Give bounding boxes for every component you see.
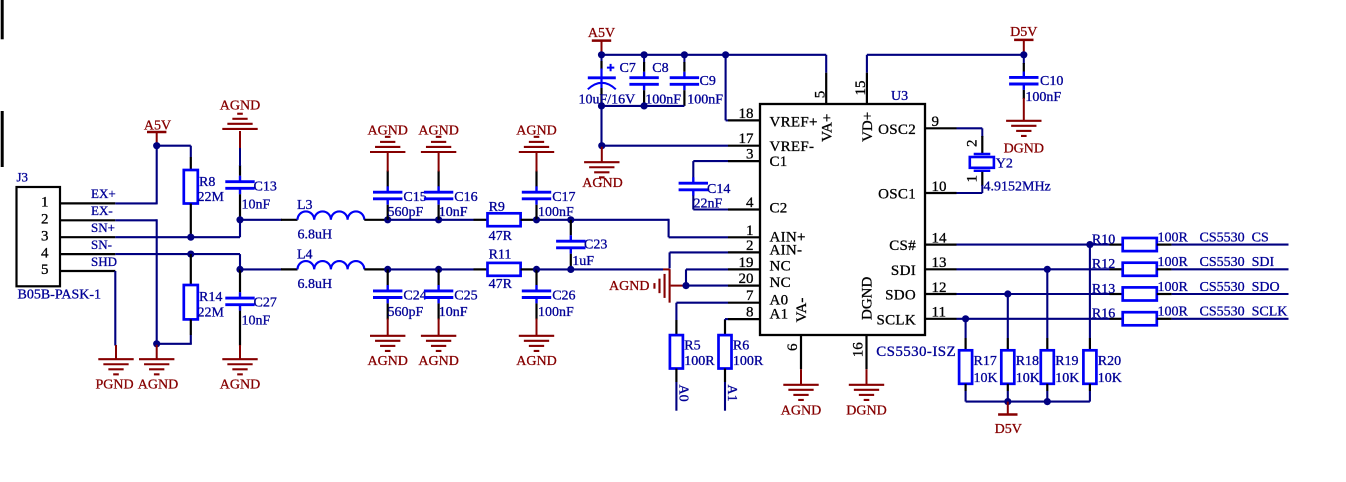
svg-text:560pF: 560pF bbox=[388, 305, 424, 320]
wire SN- bbox=[115, 254, 240, 269]
svg-text:10K: 10K bbox=[974, 371, 998, 386]
wire A0 stub bbox=[675, 382, 677, 411]
svg-text:AGND: AGND bbox=[367, 354, 407, 369]
svg-text:22M: 22M bbox=[198, 306, 225, 321]
wire SHD down bbox=[114, 271, 116, 346]
wire R18 to line bbox=[1007, 294, 1009, 338]
junction C7 bottom bbox=[598, 102, 605, 109]
wire C1 pin3 bbox=[693, 161, 728, 177]
ground AGND below C24 bbox=[367, 336, 407, 369]
svg-text:C24: C24 bbox=[403, 289, 426, 304]
svg-text:CS5530 SCLK: CS5530 SCLK bbox=[1200, 305, 1288, 320]
svg-text:SN+: SN+ bbox=[91, 220, 115, 235]
svg-text:2: 2 bbox=[746, 238, 754, 254]
capacitor C17 100nF bbox=[522, 171, 576, 221]
svg-text:CS5530 SDI: CS5530 SDI bbox=[1200, 255, 1275, 270]
svg-text:R5: R5 bbox=[684, 339, 700, 354]
svg-text:SDI: SDI bbox=[891, 263, 916, 279]
wire R20 to line bbox=[1089, 245, 1091, 338]
net label EX+ bbox=[91, 186, 116, 201]
junction VREF+ tap bbox=[722, 51, 729, 58]
U3 bottom pins 6,16 bbox=[785, 277, 876, 370]
svg-text:4.9152MHz: 4.9152MHz bbox=[984, 179, 1051, 194]
net label CS5530 CS bbox=[1158, 230, 1289, 245]
capacitor C7 10uF/16V bbox=[579, 55, 636, 108]
junction SN- node bbox=[236, 266, 243, 273]
svg-text:4: 4 bbox=[746, 195, 754, 211]
resistor R19 10K bbox=[1041, 338, 1080, 391]
svg-text:R14: R14 bbox=[199, 290, 222, 305]
svg-text:A5V: A5V bbox=[144, 119, 171, 134]
ground AGND (pin6) bbox=[781, 369, 821, 418]
svg-text:100R: 100R bbox=[733, 354, 764, 369]
svg-text:Y2: Y2 bbox=[996, 157, 1013, 172]
svg-text:AGND: AGND bbox=[609, 279, 649, 294]
wire C2 pin4 bbox=[693, 196, 728, 210]
svg-text:SHD: SHD bbox=[91, 254, 117, 269]
junction pull-up R10 row bbox=[1086, 241, 1093, 248]
wire R14 to AGND bbox=[157, 335, 192, 344]
svg-text:D5V: D5V bbox=[1010, 25, 1037, 40]
svg-text:AGND: AGND bbox=[220, 98, 260, 113]
svg-text:DGND: DGND bbox=[846, 403, 886, 418]
wire NC pin19 bbox=[686, 269, 728, 286]
svg-text:AGND: AGND bbox=[138, 377, 178, 392]
wire L4 node to C25 node bbox=[388, 268, 439, 270]
svg-text:18: 18 bbox=[739, 106, 754, 122]
svg-text:J3: J3 bbox=[17, 170, 29, 185]
svg-text:AGND: AGND bbox=[516, 124, 556, 139]
capacitor C27 10nF bbox=[225, 269, 277, 345]
svg-text:L3: L3 bbox=[297, 198, 313, 213]
wire SDO net (IC side) bbox=[957, 293, 1110, 295]
junction pull-up R12 row bbox=[1044, 266, 1051, 273]
svg-text:13: 13 bbox=[932, 255, 947, 271]
wire Y2 to OSC1 bbox=[957, 172, 983, 193]
capacitor C14 22nF bbox=[679, 177, 731, 211]
junction C24 node bbox=[384, 266, 391, 273]
wire SCLK net (IC side) bbox=[957, 318, 1110, 320]
wire AIN- pin link bbox=[670, 252, 728, 268]
svg-text:10nF: 10nF bbox=[439, 205, 468, 220]
svg-text:A5V: A5V bbox=[588, 26, 615, 41]
svg-text:100R: 100R bbox=[1158, 305, 1189, 320]
svg-text:R20: R20 bbox=[1098, 354, 1121, 369]
ground DGND (pin16) bbox=[846, 369, 886, 418]
svg-text:C26: C26 bbox=[552, 289, 575, 304]
junction C8 bottom bbox=[641, 102, 648, 109]
svg-text:SDO: SDO bbox=[885, 288, 916, 304]
svg-text:AGND: AGND bbox=[781, 403, 821, 418]
svg-text:19: 19 bbox=[739, 255, 754, 271]
ground AGND below C26 bbox=[516, 336, 556, 369]
resistor R8 22M bbox=[184, 157, 225, 237]
svg-text:47R: 47R bbox=[489, 229, 513, 244]
svg-text:10K: 10K bbox=[1055, 371, 1079, 386]
net label A1 bbox=[724, 385, 739, 402]
junction C8 top bbox=[641, 51, 648, 58]
wire A0 net bbox=[676, 303, 728, 320]
U3 left pins bbox=[728, 106, 818, 323]
wire C17 node to C23 node bbox=[537, 219, 571, 221]
svg-text:VA+: VA+ bbox=[819, 114, 835, 142]
svg-text:R10: R10 bbox=[1092, 232, 1115, 247]
svg-text:C2: C2 bbox=[770, 201, 788, 217]
connector J3 pins 1-5 bbox=[60, 203, 115, 271]
svg-text:C7: C7 bbox=[620, 61, 636, 76]
svg-text:AGND: AGND bbox=[418, 124, 458, 139]
svg-text:AGND: AGND bbox=[582, 176, 622, 191]
capacitor C23 1uF bbox=[556, 220, 607, 270]
junction bus R18 bbox=[1004, 398, 1011, 405]
svg-text:16: 16 bbox=[850, 342, 866, 358]
svg-text:OSC1: OSC1 bbox=[878, 187, 916, 203]
wire R17 to bus bbox=[965, 391, 967, 402]
wire C25 to AGND bbox=[438, 319, 440, 336]
net label EX- bbox=[91, 203, 113, 218]
wire AGND to C13 bbox=[239, 131, 241, 166]
wire R17 to line bbox=[965, 319, 967, 338]
svg-text:5: 5 bbox=[812, 91, 828, 99]
capacitor C8 100nF bbox=[629, 55, 681, 108]
svg-text:100R: 100R bbox=[684, 354, 715, 369]
resistor R11 47R bbox=[474, 248, 537, 293]
svg-text:D5V: D5V bbox=[995, 422, 1022, 437]
junction bus R19 bbox=[1044, 398, 1051, 405]
capacitor C25 10nF bbox=[424, 269, 478, 320]
svg-text:15: 15 bbox=[853, 81, 869, 96]
wire CS net (IC side) bbox=[957, 244, 1110, 246]
capacitor C16 10nF bbox=[424, 171, 478, 221]
resistor R6 100R bbox=[719, 320, 764, 382]
junction C23 bottom node bbox=[567, 266, 574, 273]
wire C24 to AGND bbox=[387, 319, 389, 336]
svg-text:EX-: EX- bbox=[91, 203, 113, 218]
wire VREF- pin17 bbox=[602, 145, 728, 147]
resistor R13 100R bbox=[1092, 282, 1172, 301]
svg-text:4: 4 bbox=[41, 245, 49, 261]
svg-text:5: 5 bbox=[41, 262, 49, 278]
connector J3 (B05B-PASK-1) bbox=[17, 170, 102, 303]
svg-text:L4: L4 bbox=[297, 248, 313, 263]
svg-text:VD+: VD+ bbox=[860, 112, 876, 142]
junction NC node bbox=[682, 282, 689, 289]
wire A1 stub bbox=[724, 382, 726, 411]
svg-text:100R: 100R bbox=[1158, 230, 1189, 245]
svg-text:100R: 100R bbox=[1158, 280, 1189, 295]
svg-text:10K: 10K bbox=[1016, 371, 1040, 386]
wire R18 to bus bbox=[1007, 391, 1009, 402]
svg-text:560pF: 560pF bbox=[388, 205, 424, 220]
wire A5V rail bbox=[602, 55, 827, 73]
junction R14/SN- bbox=[187, 251, 194, 258]
ground AGND (C27) bbox=[220, 345, 260, 392]
svg-text:DGND: DGND bbox=[860, 277, 876, 320]
wire D5V rail bbox=[867, 55, 1024, 73]
capacitor C10 100nF bbox=[1009, 55, 1063, 105]
net label CS5530 SDI bbox=[1158, 255, 1289, 270]
wire C7C8C9 bottoms bbox=[602, 105, 685, 107]
capacitor C15 560pF bbox=[373, 171, 427, 221]
svg-text:A1: A1 bbox=[724, 385, 739, 402]
resistor R20 10K bbox=[1083, 338, 1122, 391]
junction EX-/R14/AGND bbox=[153, 340, 160, 347]
ground AGND above C13 bbox=[220, 98, 260, 129]
svg-text:AGND: AGND bbox=[367, 124, 407, 139]
junction C15 node bbox=[384, 216, 391, 223]
svg-text:SN-: SN- bbox=[91, 237, 112, 252]
svg-text:AGND: AGND bbox=[418, 354, 458, 369]
wire to VREF- node bbox=[600, 106, 602, 146]
svg-text:C25: C25 bbox=[454, 289, 477, 304]
svg-text:8: 8 bbox=[746, 305, 754, 321]
svg-text:R6: R6 bbox=[733, 339, 749, 354]
svg-text:CS5530 SDO: CS5530 SDO bbox=[1200, 280, 1280, 295]
svg-text:EX+: EX+ bbox=[91, 186, 116, 201]
wire C25 node to R11 bbox=[439, 268, 474, 270]
svg-text:22M: 22M bbox=[198, 190, 225, 205]
wire R19 to bus bbox=[1046, 391, 1048, 402]
ground AGND above C16 bbox=[418, 124, 458, 152]
svg-text:20: 20 bbox=[739, 271, 754, 287]
wire R19 to line bbox=[1046, 269, 1048, 338]
svg-text:10nF: 10nF bbox=[242, 314, 271, 329]
wire AGND to C15 bbox=[387, 153, 389, 172]
svg-text:R19: R19 bbox=[1055, 354, 1078, 369]
svg-text:10nF: 10nF bbox=[439, 305, 468, 320]
wire R20 to bus bbox=[1089, 391, 1091, 402]
resistor R9 47R bbox=[474, 200, 537, 244]
svg-text:2: 2 bbox=[41, 212, 49, 228]
svg-text:U3: U3 bbox=[891, 89, 908, 104]
power D5V (bottom) bbox=[995, 402, 1022, 437]
wire SN+ bbox=[115, 220, 240, 237]
net label A0 bbox=[676, 385, 691, 402]
svg-text:VA-: VA- bbox=[794, 298, 810, 323]
svg-text:CS5530-ISZ: CS5530-ISZ bbox=[876, 344, 956, 360]
svg-text:A0: A0 bbox=[676, 385, 691, 402]
svg-text:OSC2: OSC2 bbox=[878, 122, 916, 138]
capacitor C9 100nF bbox=[670, 55, 724, 108]
svg-text:R9: R9 bbox=[489, 200, 505, 215]
junction C9 top bbox=[681, 51, 688, 58]
svg-text:C23: C23 bbox=[584, 238, 607, 253]
junction A5V/C7 bbox=[598, 51, 605, 58]
junction A5V node bbox=[153, 142, 160, 149]
junction C23 top node bbox=[567, 216, 574, 223]
svg-text:R13: R13 bbox=[1092, 282, 1115, 297]
svg-text:PGND: PGND bbox=[96, 377, 134, 392]
svg-text:2: 2 bbox=[964, 140, 980, 148]
wire OSC2 to Y2 bbox=[957, 128, 983, 153]
svg-text:C17: C17 bbox=[552, 190, 575, 205]
junction VREF- node bbox=[598, 142, 605, 149]
svg-text:100nF: 100nF bbox=[687, 93, 723, 108]
svg-text:C15: C15 bbox=[403, 190, 426, 205]
wire AGND to C17 bbox=[536, 153, 538, 172]
op-amp U3 CS5530-ISZ body bbox=[760, 89, 956, 360]
svg-text:1: 1 bbox=[964, 175, 980, 183]
U3 right pins bbox=[876, 114, 956, 328]
wire NC pin20 bbox=[686, 285, 728, 287]
svg-text:3: 3 bbox=[746, 147, 754, 163]
net label CS5530 SCLK bbox=[1158, 305, 1289, 320]
resistor R17 10K bbox=[959, 338, 998, 391]
junction C25 node bbox=[435, 266, 442, 273]
svg-text:R11: R11 bbox=[489, 248, 512, 263]
inductor L3 6.8uH bbox=[281, 198, 388, 243]
junction pull-up R13 row bbox=[1004, 290, 1011, 297]
wire A5V to R8 bbox=[157, 146, 191, 157]
ground AGND (EX-) bbox=[138, 345, 178, 393]
junction C26 node bbox=[533, 266, 540, 273]
resistor R14 22M bbox=[184, 254, 225, 335]
ground AGND above C15 bbox=[367, 124, 407, 152]
wire C16 node to R9 bbox=[439, 219, 474, 221]
junction C17 node bbox=[533, 216, 540, 223]
junction R8/SN+ bbox=[187, 234, 194, 241]
svg-text:CS#: CS# bbox=[889, 238, 916, 254]
wire top row to L3 bbox=[240, 219, 282, 221]
wire VREF+ pin18 bbox=[726, 55, 728, 121]
svg-text:12: 12 bbox=[932, 280, 947, 296]
svg-text:R8: R8 bbox=[199, 175, 215, 190]
ground AGND (AIN-/NC) bbox=[609, 269, 686, 303]
svg-text:AGND: AGND bbox=[516, 354, 556, 369]
capacitor C26 100nF bbox=[522, 269, 576, 320]
resistor R18 10K bbox=[1001, 338, 1040, 391]
junction C16 node bbox=[435, 216, 442, 223]
resistor R12 100R bbox=[1092, 257, 1172, 276]
svg-text:6.8uH: 6.8uH bbox=[298, 277, 333, 292]
svg-text:100R: 100R bbox=[1158, 255, 1189, 270]
svg-text:10: 10 bbox=[932, 179, 947, 195]
svg-text:VREF-: VREF- bbox=[770, 139, 815, 155]
wire pull-up bus bbox=[966, 401, 1090, 403]
svg-text:CS5530 CS: CS5530 CS bbox=[1200, 230, 1269, 245]
svg-text:1: 1 bbox=[746, 223, 754, 239]
wire C26 node to C23 bottom bbox=[537, 268, 571, 270]
svg-text:NC: NC bbox=[770, 259, 791, 275]
svg-text:1uF: 1uF bbox=[572, 254, 594, 269]
svg-text:B05B-PASK-1: B05B-PASK-1 bbox=[18, 288, 102, 303]
power A5V (left) bbox=[144, 119, 171, 146]
wire bottom row to L4 bbox=[240, 268, 282, 270]
net label SN+ bbox=[91, 220, 115, 235]
svg-text:SCLK: SCLK bbox=[876, 312, 916, 328]
net label SHD bbox=[91, 254, 117, 269]
svg-text:100nF: 100nF bbox=[538, 305, 574, 320]
svg-text:AIN-: AIN- bbox=[770, 243, 803, 259]
svg-text:C9: C9 bbox=[700, 74, 716, 89]
ground AGND below C25 bbox=[418, 336, 458, 369]
power A5V (top) bbox=[588, 26, 615, 55]
svg-text:C13: C13 bbox=[254, 180, 277, 195]
wire A1 net bbox=[725, 318, 728, 321]
svg-text:11: 11 bbox=[932, 305, 946, 321]
svg-text:10nF: 10nF bbox=[242, 198, 271, 213]
resistor R5 100R bbox=[670, 320, 715, 382]
ground DGND (C10) bbox=[1004, 98, 1044, 157]
power D5V (top) bbox=[1010, 25, 1037, 55]
ground AGND (VREF-) bbox=[582, 147, 622, 192]
svg-text:1: 1 bbox=[41, 195, 49, 211]
svg-text:C16: C16 bbox=[454, 190, 477, 205]
wire EX+ bbox=[115, 145, 156, 205]
svg-text:10K: 10K bbox=[1098, 371, 1122, 386]
svg-text:R16: R16 bbox=[1092, 307, 1115, 322]
wire L3 node to C16 node bbox=[388, 219, 439, 221]
svg-text:AGND: AGND bbox=[220, 377, 260, 392]
svg-text:17: 17 bbox=[739, 131, 755, 147]
wire C26 to AGND bbox=[536, 319, 538, 336]
inductor L4 6.8uH bbox=[281, 248, 388, 293]
wire AIN+ net bbox=[571, 219, 728, 238]
wire SDI net (IC side) bbox=[957, 268, 1110, 270]
svg-text:7: 7 bbox=[746, 288, 754, 304]
svg-text:C8: C8 bbox=[652, 61, 668, 76]
svg-text:A1: A1 bbox=[770, 307, 789, 323]
svg-text:NC: NC bbox=[770, 275, 791, 291]
svg-text:R18: R18 bbox=[1016, 354, 1039, 369]
resistor R10 100R bbox=[1092, 232, 1172, 251]
svg-text:C1: C1 bbox=[770, 154, 788, 170]
svg-text:C10: C10 bbox=[1040, 74, 1063, 89]
svg-text:C14: C14 bbox=[707, 182, 730, 197]
capacitor C24 560pF bbox=[373, 269, 427, 320]
svg-text:DGND: DGND bbox=[1004, 142, 1044, 157]
svg-text:6: 6 bbox=[785, 343, 801, 351]
wire AIN- net bbox=[571, 268, 670, 270]
junction pull-up R16 row bbox=[962, 315, 969, 322]
crystal Y2 4.9152MHz bbox=[964, 140, 1050, 195]
svg-text:47R: 47R bbox=[489, 277, 513, 292]
resistor R16 100R bbox=[1092, 307, 1172, 326]
ground AGND above C17 bbox=[516, 124, 556, 152]
svg-text:C27: C27 bbox=[254, 296, 277, 311]
junction SN+ node bbox=[236, 216, 243, 223]
svg-text:9: 9 bbox=[932, 114, 940, 130]
wire AGND to C16 bbox=[438, 153, 440, 172]
U3 top pins 5,15 bbox=[812, 73, 876, 142]
svg-text:14: 14 bbox=[932, 230, 948, 246]
svg-text:6.8uH: 6.8uH bbox=[298, 228, 333, 243]
capacitor C13 10nF bbox=[225, 165, 277, 220]
svg-text:VREF+: VREF+ bbox=[770, 115, 818, 131]
svg-text:R17: R17 bbox=[974, 354, 997, 369]
net label SN- bbox=[91, 237, 112, 252]
net label CS5530 SDO bbox=[1158, 280, 1289, 295]
ground PGND bbox=[96, 345, 134, 392]
svg-text:100nF: 100nF bbox=[1025, 90, 1061, 105]
wire EX- bbox=[115, 219, 156, 345]
svg-text:R12: R12 bbox=[1092, 257, 1115, 272]
junction C10 top bbox=[1020, 51, 1027, 58]
svg-text:3: 3 bbox=[41, 228, 49, 244]
